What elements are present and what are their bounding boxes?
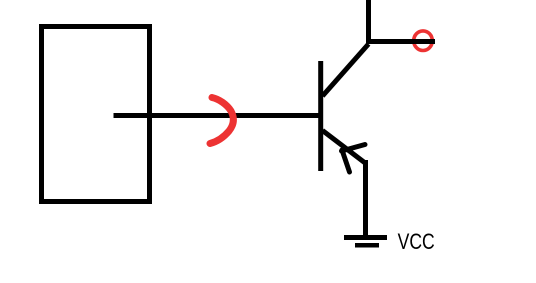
svg-text:VCC: VCC [398,230,435,254]
